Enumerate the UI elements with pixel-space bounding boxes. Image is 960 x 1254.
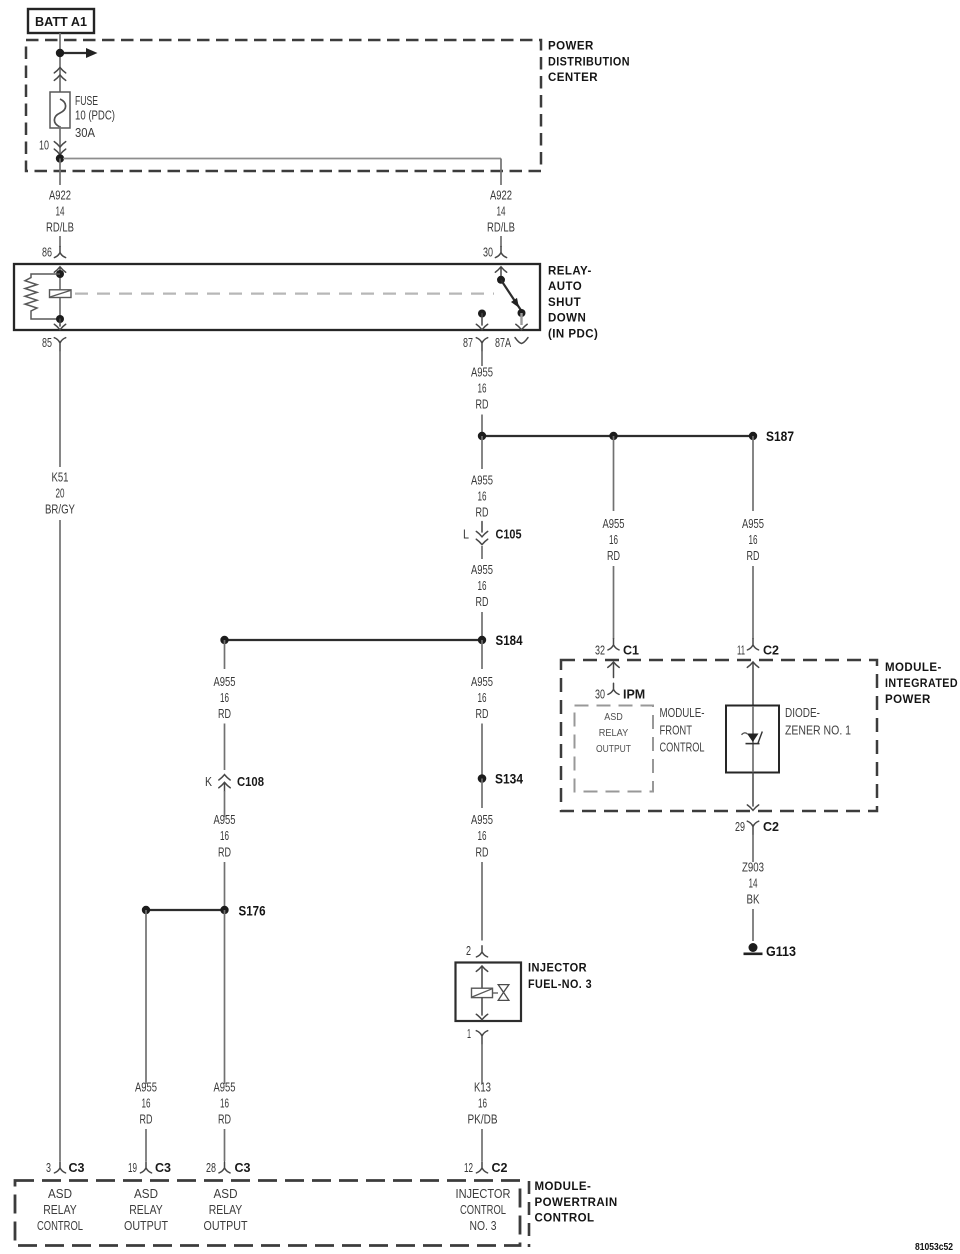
svg-text:C3: C3: [235, 1161, 251, 1175]
wire K51 from relay pin 85: [59, 351, 61, 467]
node S176 left: [142, 906, 150, 914]
wire left branch below S184: [224, 640, 226, 669]
svg-text:16: 16: [609, 532, 618, 547]
injector FUEL-NO.3 box: [456, 963, 522, 1022]
svg-text:K51: K51: [52, 470, 69, 485]
coil to contact link dashed gray: [75, 293, 494, 295]
wire stub to pin 86: [59, 236, 61, 247]
svg-text:RELAY-: RELAY-: [548, 266, 592, 278]
wire to PCM pin 12: [481, 1129, 483, 1161]
svg-text:A955: A955: [742, 516, 764, 531]
node S187 mid: [609, 432, 617, 440]
svg-text:87: 87: [463, 335, 473, 350]
wire to pin 11: [752, 566, 754, 639]
relay switch contact arm: [501, 280, 522, 311]
node contact common: [497, 276, 505, 284]
svg-text:14: 14: [749, 876, 758, 891]
svg-text:RD: RD: [218, 706, 231, 721]
label RELAY-AUTO SHUT DOWN (IN PDC): [548, 266, 598, 341]
svg-text:C3: C3: [69, 1161, 85, 1175]
svg-text:C108: C108: [237, 775, 264, 789]
svg-text:85: 85: [42, 335, 52, 350]
svg-text:OUTPUT: OUTPUT: [596, 743, 631, 755]
svg-text:19: 19: [128, 1160, 137, 1175]
wire to S134: [481, 724, 483, 779]
svg-text:FRONT: FRONT: [660, 722, 693, 737]
svg-text:MODULE-: MODULE-: [660, 705, 705, 720]
wire center below S187: [481, 436, 483, 469]
svg-text:C2: C2: [763, 644, 779, 658]
zener diode symbol: [742, 732, 763, 744]
svg-text:C2: C2: [763, 820, 779, 834]
svg-text:12: 12: [464, 1160, 473, 1175]
svg-text:L: L: [463, 527, 469, 542]
wire to S176: [224, 862, 226, 910]
svg-text:FUSE: FUSE: [75, 93, 98, 108]
ground G113: [744, 943, 797, 959]
connector C108 pin K: [205, 774, 264, 791]
svg-text:A955: A955: [603, 516, 625, 531]
node battery junction: [56, 49, 64, 57]
inline connector chevrons below fuse: [54, 142, 65, 155]
node S187 left: [478, 432, 486, 440]
svg-text:10 (PDC): 10 (PDC): [75, 108, 115, 123]
svg-text:16: 16: [220, 1096, 229, 1111]
wire through diode box: [752, 706, 754, 772]
wire col2 to connector: [145, 1129, 147, 1161]
wire to splice S187: [481, 415, 483, 437]
resistor in relay: [25, 274, 60, 319]
node fuse output junction: [56, 154, 64, 162]
injector pin 1 arrow inside: [476, 998, 487, 1020]
svg-text:A922: A922: [490, 188, 512, 203]
svg-text:CENTER: CENTER: [548, 72, 598, 84]
wire Z903 ground lead: [752, 835, 754, 863]
svg-text:30: 30: [595, 687, 605, 702]
node S184: [478, 632, 523, 648]
svg-text:ASD: ASD: [214, 1187, 238, 1201]
svg-text:RELAY: RELAY: [599, 727, 629, 739]
svg-text:RD: RD: [747, 548, 760, 563]
svg-text:30A: 30A: [75, 125, 95, 140]
svg-text:BATT A1: BATT A1: [35, 15, 87, 29]
svg-text:CONTROL: CONTROL: [535, 1213, 595, 1225]
node S176: [220, 902, 265, 918]
svg-text:RD: RD: [218, 845, 231, 860]
relay pin 85 arrow inside: [54, 319, 65, 330]
svg-text:RELAY: RELAY: [43, 1203, 77, 1217]
svg-text:C3: C3: [155, 1161, 171, 1175]
svg-text:CONTROL: CONTROL: [660, 740, 705, 755]
svg-text:28: 28: [206, 1160, 216, 1175]
label INJECTOR FUEL-NO. 3: [528, 963, 592, 991]
wire label A922 14 RD/LB left: [46, 188, 74, 235]
power distribution center dashed box: [26, 40, 541, 171]
svg-text:IPM: IPM: [623, 688, 645, 702]
pin 87A connector below relay: [495, 335, 528, 350]
label MODULE-FRONT CONTROL: [660, 705, 705, 755]
svg-text:16: 16: [478, 489, 487, 504]
svg-text:NO. 3: NO. 3: [470, 1219, 497, 1233]
pin 86 connector: [42, 245, 66, 260]
label bracket dashes: [528, 1181, 531, 1247]
label ASD RELAY OUTPUT col2: [124, 1187, 168, 1233]
svg-text:K: K: [205, 774, 212, 789]
wire K13 below injector: [481, 1044, 483, 1084]
fuse FUSE 10 (PDC) 30A: [50, 92, 115, 140]
svg-text:DIODE-: DIODE-: [785, 705, 820, 720]
wire to pin 32: [613, 566, 615, 639]
label ASD RELAY CONTROL: [37, 1187, 83, 1233]
svg-text:2: 2: [466, 943, 471, 958]
node 87 terminal: [478, 310, 486, 318]
wire down to injector: [481, 862, 483, 941]
svg-text:INJECTOR: INJECTOR: [528, 963, 587, 975]
wire label A955 16 RD above injector: [471, 812, 493, 860]
label POWER DISTRIBUTION CENTER: [548, 41, 630, 84]
pin 11 connector C2: [737, 639, 779, 658]
relay pin 87 arrow inside: [476, 314, 487, 330]
inline connector chevrons above fuse: [54, 68, 65, 81]
svg-text:RD: RD: [476, 706, 489, 721]
powertrain control module dashed box: [15, 1181, 520, 1246]
svg-text:16: 16: [478, 1096, 487, 1111]
svg-text:RD: RD: [218, 1112, 231, 1127]
svg-text:20: 20: [56, 486, 65, 501]
svg-text:RD: RD: [476, 845, 489, 860]
label DIODE-ZENER NO. 1: [785, 705, 851, 737]
svg-text:86: 86: [42, 245, 52, 260]
svg-text:A955: A955: [471, 812, 493, 827]
svg-text:87A: 87A: [495, 335, 511, 350]
label MODULE-INTEGRATED POWER: [885, 662, 958, 706]
svg-text:S176: S176: [239, 902, 266, 918]
svg-text:CONTROL: CONTROL: [37, 1219, 83, 1233]
wire label A955 16 RD to C2: [742, 516, 764, 563]
relay coil symbol: [50, 290, 72, 298]
svg-text:MODULE-: MODULE-: [535, 1181, 592, 1193]
svg-text:(IN PDC): (IN PDC): [548, 328, 598, 340]
wire K51 long run down: [59, 520, 61, 1161]
wire label A922 14 RD/LB right: [487, 188, 515, 235]
wire A955 from relay pin 87: [481, 351, 483, 366]
svg-text:RELAY: RELAY: [129, 1203, 163, 1217]
pin 12 connector C2: [464, 1160, 508, 1175]
arrow feed to other circuits: [64, 48, 98, 58]
pin 29 connector C2: [735, 819, 779, 835]
battery feed box BATT A1: [28, 9, 94, 33]
wire bus across PDC: [63, 159, 501, 186]
svg-text:RD/LB: RD/LB: [487, 220, 515, 235]
wire label A955 16 RD col2: [135, 1080, 157, 1127]
wire col2 down from S176: [145, 910, 147, 1084]
wire center S184 to S134: [481, 640, 483, 669]
pin 28 connector C3: [206, 1160, 251, 1175]
injector pin 1 connector: [467, 1026, 488, 1044]
svg-text:A955: A955: [135, 1080, 157, 1095]
label ASD RELAY OUTPUT: [596, 711, 631, 755]
svg-text:A955: A955: [471, 365, 493, 380]
svg-text:OUTPUT: OUTPUT: [124, 1219, 168, 1233]
svg-text:C1: C1: [623, 644, 639, 658]
pin 32 connector C1: [595, 639, 639, 658]
wire stub to pin 30: [500, 236, 502, 247]
svg-text:ZENER NO. 1: ZENER NO. 1: [785, 722, 851, 737]
svg-text:16: 16: [220, 690, 229, 705]
svg-text:A955: A955: [214, 674, 236, 689]
wire to C108: [224, 724, 226, 771]
pin 87 connector below relay: [463, 335, 488, 351]
injector pin 2 connector: [466, 943, 488, 958]
wire label A955 16 RD to C1: [603, 516, 625, 563]
svg-text:16: 16: [142, 1096, 151, 1111]
splice S176 bus: [146, 909, 225, 911]
svg-text:AUTO: AUTO: [548, 281, 582, 293]
relay pin 30 arrow inside: [495, 267, 506, 280]
svg-text:32: 32: [595, 643, 605, 658]
svg-text:29: 29: [735, 819, 745, 834]
module integrated power dashed box: [561, 660, 877, 811]
label INJECTOR CONTROL NO.3: [456, 1187, 511, 1233]
svg-text:C105: C105: [496, 528, 522, 542]
svg-text:SHUT: SHUT: [548, 297, 581, 309]
wire label A955 16 RD below 87: [471, 365, 493, 412]
svg-text:16: 16: [478, 690, 487, 705]
asd relay output inner dashed box: [575, 706, 654, 792]
wire from battery into PDC: [59, 33, 61, 99]
svg-text:INJECTOR: INJECTOR: [456, 1187, 511, 1201]
wire label A955 16 RD above C108: [214, 674, 236, 721]
svg-text:C2: C2: [492, 1161, 508, 1175]
wire left leg down: [59, 159, 61, 186]
wire below S134: [481, 779, 483, 809]
svg-text:A955: A955: [214, 1080, 236, 1095]
wire to S184: [481, 612, 483, 640]
injector coil symbol: [472, 988, 499, 997]
svg-text:A955: A955: [214, 812, 236, 827]
relay pin 87A arrow inside: [516, 313, 527, 330]
wire label A955 16 RD col3: [214, 1080, 236, 1127]
wire label A955 16 RD above S184: [471, 562, 493, 609]
wire label A955 16 RD above S134: [471, 674, 493, 721]
relay box ASD relay: [14, 264, 540, 330]
svg-text:BK: BK: [747, 892, 760, 907]
svg-text:S134: S134: [495, 771, 523, 787]
svg-text:16: 16: [220, 828, 229, 843]
svg-text:POWERTRAIN: POWERTRAIN: [535, 1197, 618, 1209]
injector pin 2 arrow inside: [476, 966, 487, 988]
svg-text:16: 16: [478, 828, 487, 843]
wire below fuse: [59, 126, 61, 155]
label MODULE-POWERTRAIN CONTROL: [535, 1181, 618, 1225]
svg-text:A955: A955: [471, 473, 493, 488]
connector C105 pin L: [463, 522, 522, 545]
svg-text:Z903: Z903: [742, 860, 764, 875]
svg-text:ASD: ASD: [134, 1187, 158, 1201]
svg-text:RD: RD: [607, 548, 620, 563]
svg-text:RD/LB: RD/LB: [46, 220, 74, 235]
svg-text:1: 1: [467, 1026, 471, 1041]
svg-text:RELAY: RELAY: [209, 1203, 243, 1217]
node S134: [478, 771, 523, 787]
arrow out of module bottom: [747, 773, 758, 811]
injector valve symbol: [498, 985, 509, 1001]
svg-text:MODULE-: MODULE-: [885, 662, 942, 674]
relay coil wire: [59, 274, 61, 319]
svg-text:A922: A922: [49, 188, 71, 203]
svg-text:3: 3: [46, 1160, 51, 1175]
svg-text:K13: K13: [474, 1080, 491, 1095]
svg-text:30: 30: [483, 245, 493, 260]
splice S184 bus: [225, 639, 483, 641]
svg-text:RD: RD: [476, 505, 489, 520]
svg-text:A955: A955: [471, 562, 493, 577]
svg-text:OUTPUT: OUTPUT: [204, 1219, 248, 1233]
splice S187 bus: [482, 435, 753, 437]
svg-text:ASD: ASD: [604, 711, 623, 723]
wire below C105: [481, 546, 483, 559]
pin 32 arrow inside module: [608, 662, 619, 678]
svg-text:16: 16: [478, 381, 487, 396]
wire label A955 16 RD above S176: [214, 812, 236, 860]
wire below C108: [224, 791, 226, 817]
svg-text:10: 10: [39, 138, 49, 153]
svg-text:PK/DB: PK/DB: [468, 1112, 498, 1127]
svg-text:POWER: POWER: [548, 41, 594, 53]
wire col3 down from S176: [224, 910, 226, 1084]
svg-text:RD: RD: [476, 594, 489, 609]
svg-text:INTEGRATED: INTEGRATED: [885, 678, 958, 690]
pin 3 connector C3: [46, 1160, 85, 1175]
node 87A terminal: [518, 309, 526, 317]
node S187: [749, 428, 794, 444]
relay pin 86 arrow inside: [54, 267, 65, 274]
svg-text:A955: A955: [471, 674, 493, 689]
node coil bottom: [56, 315, 64, 323]
svg-text:CONTROL: CONTROL: [460, 1203, 506, 1217]
pin 30 connector IPM internal: [595, 683, 645, 701]
svg-text:16: 16: [749, 532, 758, 547]
svg-text:14: 14: [497, 204, 506, 219]
wire zener branch from S187: [752, 436, 754, 511]
svg-text:RD: RD: [476, 397, 489, 412]
svg-text:FUEL-NO. 3: FUEL-NO. 3: [528, 979, 592, 991]
svg-text:ASD: ASD: [48, 1187, 72, 1201]
svg-text:BR/GY: BR/GY: [45, 502, 75, 517]
svg-text:11: 11: [737, 643, 745, 658]
pin 19 connector C3: [128, 1160, 171, 1175]
node S184 left: [220, 636, 228, 644]
wire label K13 16 PK/DB: [468, 1080, 498, 1127]
svg-text:RD: RD: [140, 1112, 153, 1127]
wire IPM branch from S187 mid: [613, 436, 615, 511]
svg-text:16: 16: [478, 578, 487, 593]
svg-text:81053c52: 81053c52: [915, 1241, 953, 1253]
svg-text:DISTRIBUTION: DISTRIBUTION: [548, 56, 630, 68]
pin 11 arrow inside module: [747, 662, 758, 706]
pin 85 connector below relay: [42, 335, 66, 351]
svg-text:POWER: POWER: [885, 694, 931, 706]
svg-text:DOWN: DOWN: [548, 313, 586, 325]
pin 30 connector: [483, 245, 507, 260]
node coil top: [56, 270, 64, 278]
svg-text:14: 14: [56, 204, 65, 219]
svg-text:S187: S187: [766, 428, 794, 444]
wire col3 to connector: [224, 1129, 226, 1161]
label ASD RELAY OUTPUT col3: [204, 1187, 248, 1233]
svg-text:G113: G113: [766, 943, 796, 959]
diode-zener no.1 box: [726, 706, 779, 773]
wire label Z903 14 BK: [742, 860, 764, 907]
wire label K51 20 BR/GY: [45, 470, 75, 517]
svg-text:S184: S184: [496, 632, 523, 648]
wire label A955 16 RD above C105: [471, 473, 493, 520]
wire to ground G113: [752, 909, 754, 941]
